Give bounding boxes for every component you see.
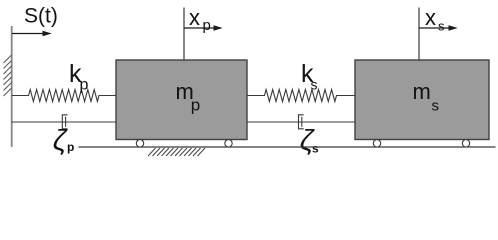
svg-text:s: s	[312, 142, 319, 156]
svg-text:m: m	[413, 79, 431, 104]
svg-text:p: p	[67, 140, 74, 154]
svg-text:ζ: ζ	[53, 124, 68, 157]
svg-text:p: p	[80, 77, 89, 94]
svg-text:x: x	[189, 5, 200, 30]
svg-text:x: x	[425, 5, 436, 30]
svg-text:S(t): S(t)	[24, 5, 58, 28]
svg-text:s: s	[432, 97, 440, 114]
svg-text:s: s	[438, 19, 445, 34]
svg-text:s: s	[311, 77, 318, 93]
svg-text:p: p	[191, 96, 200, 115]
svg-text:p: p	[203, 17, 211, 34]
